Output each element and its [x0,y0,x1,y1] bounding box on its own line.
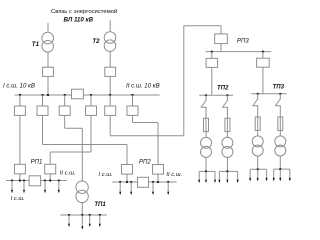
load arrow TP2 left left [198,171,200,182]
wire RP3 breaker to bus [220,44,222,52]
svg-text:Т2: Т2 [92,38,100,45]
disconnect switch TP2 right [223,95,228,118]
svg-text:II с.ш.: II с.ш. [166,172,182,178]
load bus TP2 right [219,170,237,172]
wire transformer TP3 right to load bus [279,156,281,169]
junction dot main bus 4 [64,94,66,96]
wire stub bus to feeder breaker 3 [64,95,66,106]
load arrow RP2 2 [130,182,132,194]
junction dot RP2 bus 1 [119,181,121,183]
wire drop to RP2 left breaker [126,145,128,165]
junction dot RP1 bus 5 [49,179,51,181]
wire feeder3 right [65,127,83,129]
wire stub bus to feeder breaker 2 [42,95,44,106]
junction dot RP2 bus 5 [157,181,159,183]
RP3 left feeder breaker [206,58,218,67]
wire RP3 riser top horizontal [184,25,221,27]
junction dot TP3 left [257,93,259,95]
wire feeder2 right to RP2 left [43,144,128,146]
junction dot main bus 6 [109,94,111,96]
junction dot main bus 2 [41,94,43,96]
load arrow RP1 1 [11,181,13,193]
breaker under T1 [43,67,54,76]
junction dot RP3 bus left [211,51,213,53]
transformer TP2 left [201,137,212,148]
junction dot TP1 load bus 4 [99,214,101,216]
load arrow RP1 3 [44,181,46,193]
wire transformer TP2 left to load bus [205,157,207,171]
load arrow TP3 left right [266,169,268,180]
wire incoming line to T1 [47,23,49,33]
svg-text:Т1: Т1 [32,41,40,48]
wire through fuse TP2 left [205,118,207,138]
junction dot main bus 7 [131,94,133,96]
svg-text:I с.ш.: I с.ш. [11,196,25,202]
junction dot RP1 bus 2 [19,179,21,181]
svg-text:ТП2: ТП2 [217,86,229,92]
load arrow TP1 4 [99,215,101,226]
RP1 left incoming breaker [14,164,25,174]
fuse TP2 right [225,118,230,131]
feeder breaker 6 [127,106,138,115]
transformer TP2 right [222,137,233,148]
junction dot main bus 5 [90,94,92,96]
load arrow TP3 left center [257,169,259,180]
wire RP1 left stub [19,174,21,181]
junction dot RP1 bus 1 [11,179,13,181]
wire through fuse TP3 left [257,117,259,136]
wire feeder3 down [64,115,66,128]
TP3 bus [251,93,286,95]
feeder breaker 1 [14,106,25,115]
wire RP3 right feeder to TP3 [262,67,264,94]
wire drop to RP3 breaker [220,26,222,34]
wire transformer TP3 left to load bus [257,156,259,169]
load arrow TP2 right left [218,171,220,182]
wire RP2 left stub [126,174,128,182]
wire feeder6 right [133,122,159,124]
RP3 bus [206,51,272,53]
breaker under T2 [105,67,116,76]
junction dot RP1 bus 3 [23,179,25,181]
feeder breaker 4 [86,106,97,115]
wire breaker to bus section II [109,76,111,95]
wire through fuse TP2 right [226,118,228,138]
svg-text:ВЛ 110 кВ: ВЛ 110 кВ [64,16,94,23]
load arrow TP3 right center [279,169,281,180]
junction dot RP2 bus 6 [167,181,169,183]
fuse TP3 right [278,117,283,130]
junction dot load bus TP2 right [226,170,228,172]
load arrow TP1 3 [89,215,91,226]
svg-text:II с.ш. 10 кВ: II с.ш. 10 кВ [126,83,160,90]
svg-text:ТП1: ТП1 [94,202,106,208]
svg-text:РП1: РП1 [31,160,43,166]
junction dot main bus 1 [19,94,21,96]
wire feeder1 to RP1 left [19,115,21,164]
RP3 incoming breaker [215,34,228,44]
load arrow TP2 right center [226,171,228,182]
junction dot TP2 left [205,94,207,96]
wire stub bus to feeder breaker 6 [132,95,134,106]
svg-text:Связь с энергосистемой: Связь с энергосистемой [51,8,117,15]
wire drop to TP1 [81,128,83,181]
junction dot TP1 load bus 2 [81,214,83,216]
load arrow TP2 left right [214,171,216,182]
wire feeder4 left to RP1 right [50,151,91,153]
load arrow RP2 4 [167,182,169,194]
junction dot TP2 right [226,94,228,96]
wire breaker to bus section I [47,76,49,95]
TP1 load bus [60,214,107,216]
disconnect switch TP2 left [201,95,206,118]
wire TP1 to load bus [81,203,83,215]
load bus TP3 left [250,168,267,170]
junction dot load bus TP3 left [257,168,259,170]
load arrow TP2 left center [205,171,207,182]
wire feeder5 down [109,115,111,135]
wire stub bus to feeder breaker 1 [19,95,21,106]
feeder breaker 3 [59,106,70,115]
wire RP1 right stub [49,174,51,181]
feeder breaker 2 [37,106,48,115]
RP2 right incoming breaker [153,165,164,175]
wire incoming line to T2 [109,20,111,32]
wire T1 to breaker [47,52,49,67]
wire feeder5 right to RP3 riser [110,135,184,137]
junction dot TP1 load bus 1 [68,214,70,216]
load arrow TP3 right left [273,169,275,180]
svg-text:РП2: РП2 [139,160,151,166]
main bus 10 kV [15,94,160,96]
transformer TP1 [76,181,88,193]
wire feeder4 down [90,115,92,152]
junction dot RP2 bus 4 [152,181,154,183]
junction dot main bus 3 [47,94,49,96]
load arrow RP1 2 [23,181,25,193]
junction dot TP1 load bus 3 [89,214,91,216]
wire stub RP3 left feeder [211,52,213,59]
transformer T2 [104,32,116,44]
TP2 bus [199,94,233,96]
RP1 bus tie breaker [29,176,40,186]
RP1 bus [6,180,67,182]
wire transformer TP2 right to load bus [226,157,228,171]
load arrow RP1 4 [58,181,60,193]
junction dot RP1 bus 4 [44,179,46,181]
wire T2 to breaker [109,52,111,68]
svg-text:РП3: РП3 [237,39,249,45]
wire RP3 riser up [183,26,185,136]
svg-text:I с.ш. 10 кВ: I с.ш. 10 кВ [3,83,35,90]
junction dot RP1 bus 6 [58,179,60,181]
disconnect switch TP3 right [276,94,281,117]
svg-text:ТП3: ТП3 [273,85,285,91]
load arrow RP2 3 [152,182,154,194]
wire RP2 right stub [157,174,159,182]
RP2 bus [112,181,176,183]
load bus TP2 left [199,170,215,172]
load bus TP3 right [274,168,290,170]
RP2 bus tie breaker [138,177,149,187]
load arrow TP2 right right [237,171,239,182]
wire stub RP3 right feeder [262,52,264,59]
load arrow TP1 1 [68,215,70,226]
transformer TP3 right [275,136,286,147]
wire stub bus to feeder breaker 4 [90,95,92,106]
RP3 right feeder breaker [257,58,270,67]
svg-text:I с.ш.: I с.ш. [99,172,113,178]
junction dot load bus TP2 left [205,170,207,172]
wire drop to RP1 right breaker [49,152,51,164]
transformer TP3 left [252,136,263,147]
RP1 right incoming breaker [45,164,56,174]
wire drop to RP2 right breaker [157,123,159,165]
disconnect switch TP3 left [253,94,258,117]
junction dot RP2 bus 3 [130,181,132,183]
feeder breaker 5 [105,106,116,115]
load arrow TP3 left left [249,169,251,180]
svg-text:II с.ш.: II с.ш. [60,171,76,177]
wire feeder6 down [132,115,134,122]
wire RP3 left feeder to TP2 [211,67,213,95]
fuse TP2 left [204,118,209,131]
junction dot RP3 bus right [262,51,264,53]
fuse TP3 left [255,117,260,130]
load arrow RP2 1 [119,182,121,194]
load arrow TP3 right right [289,169,291,180]
wire stub bus to feeder breaker 5 [109,95,111,106]
wire through fuse TP3 right [279,117,281,136]
RP2 left incoming breaker [122,165,133,175]
junction dot load bus TP3 right [279,168,281,170]
bus tie breaker on main bus [72,89,84,99]
wire feeder2 down [42,115,44,144]
transformer T1 [42,32,54,44]
load arrow TP1 2 center [81,215,83,229]
junction dot RP2 bus 2 [126,181,128,183]
junction dot TP3 right [279,93,281,95]
